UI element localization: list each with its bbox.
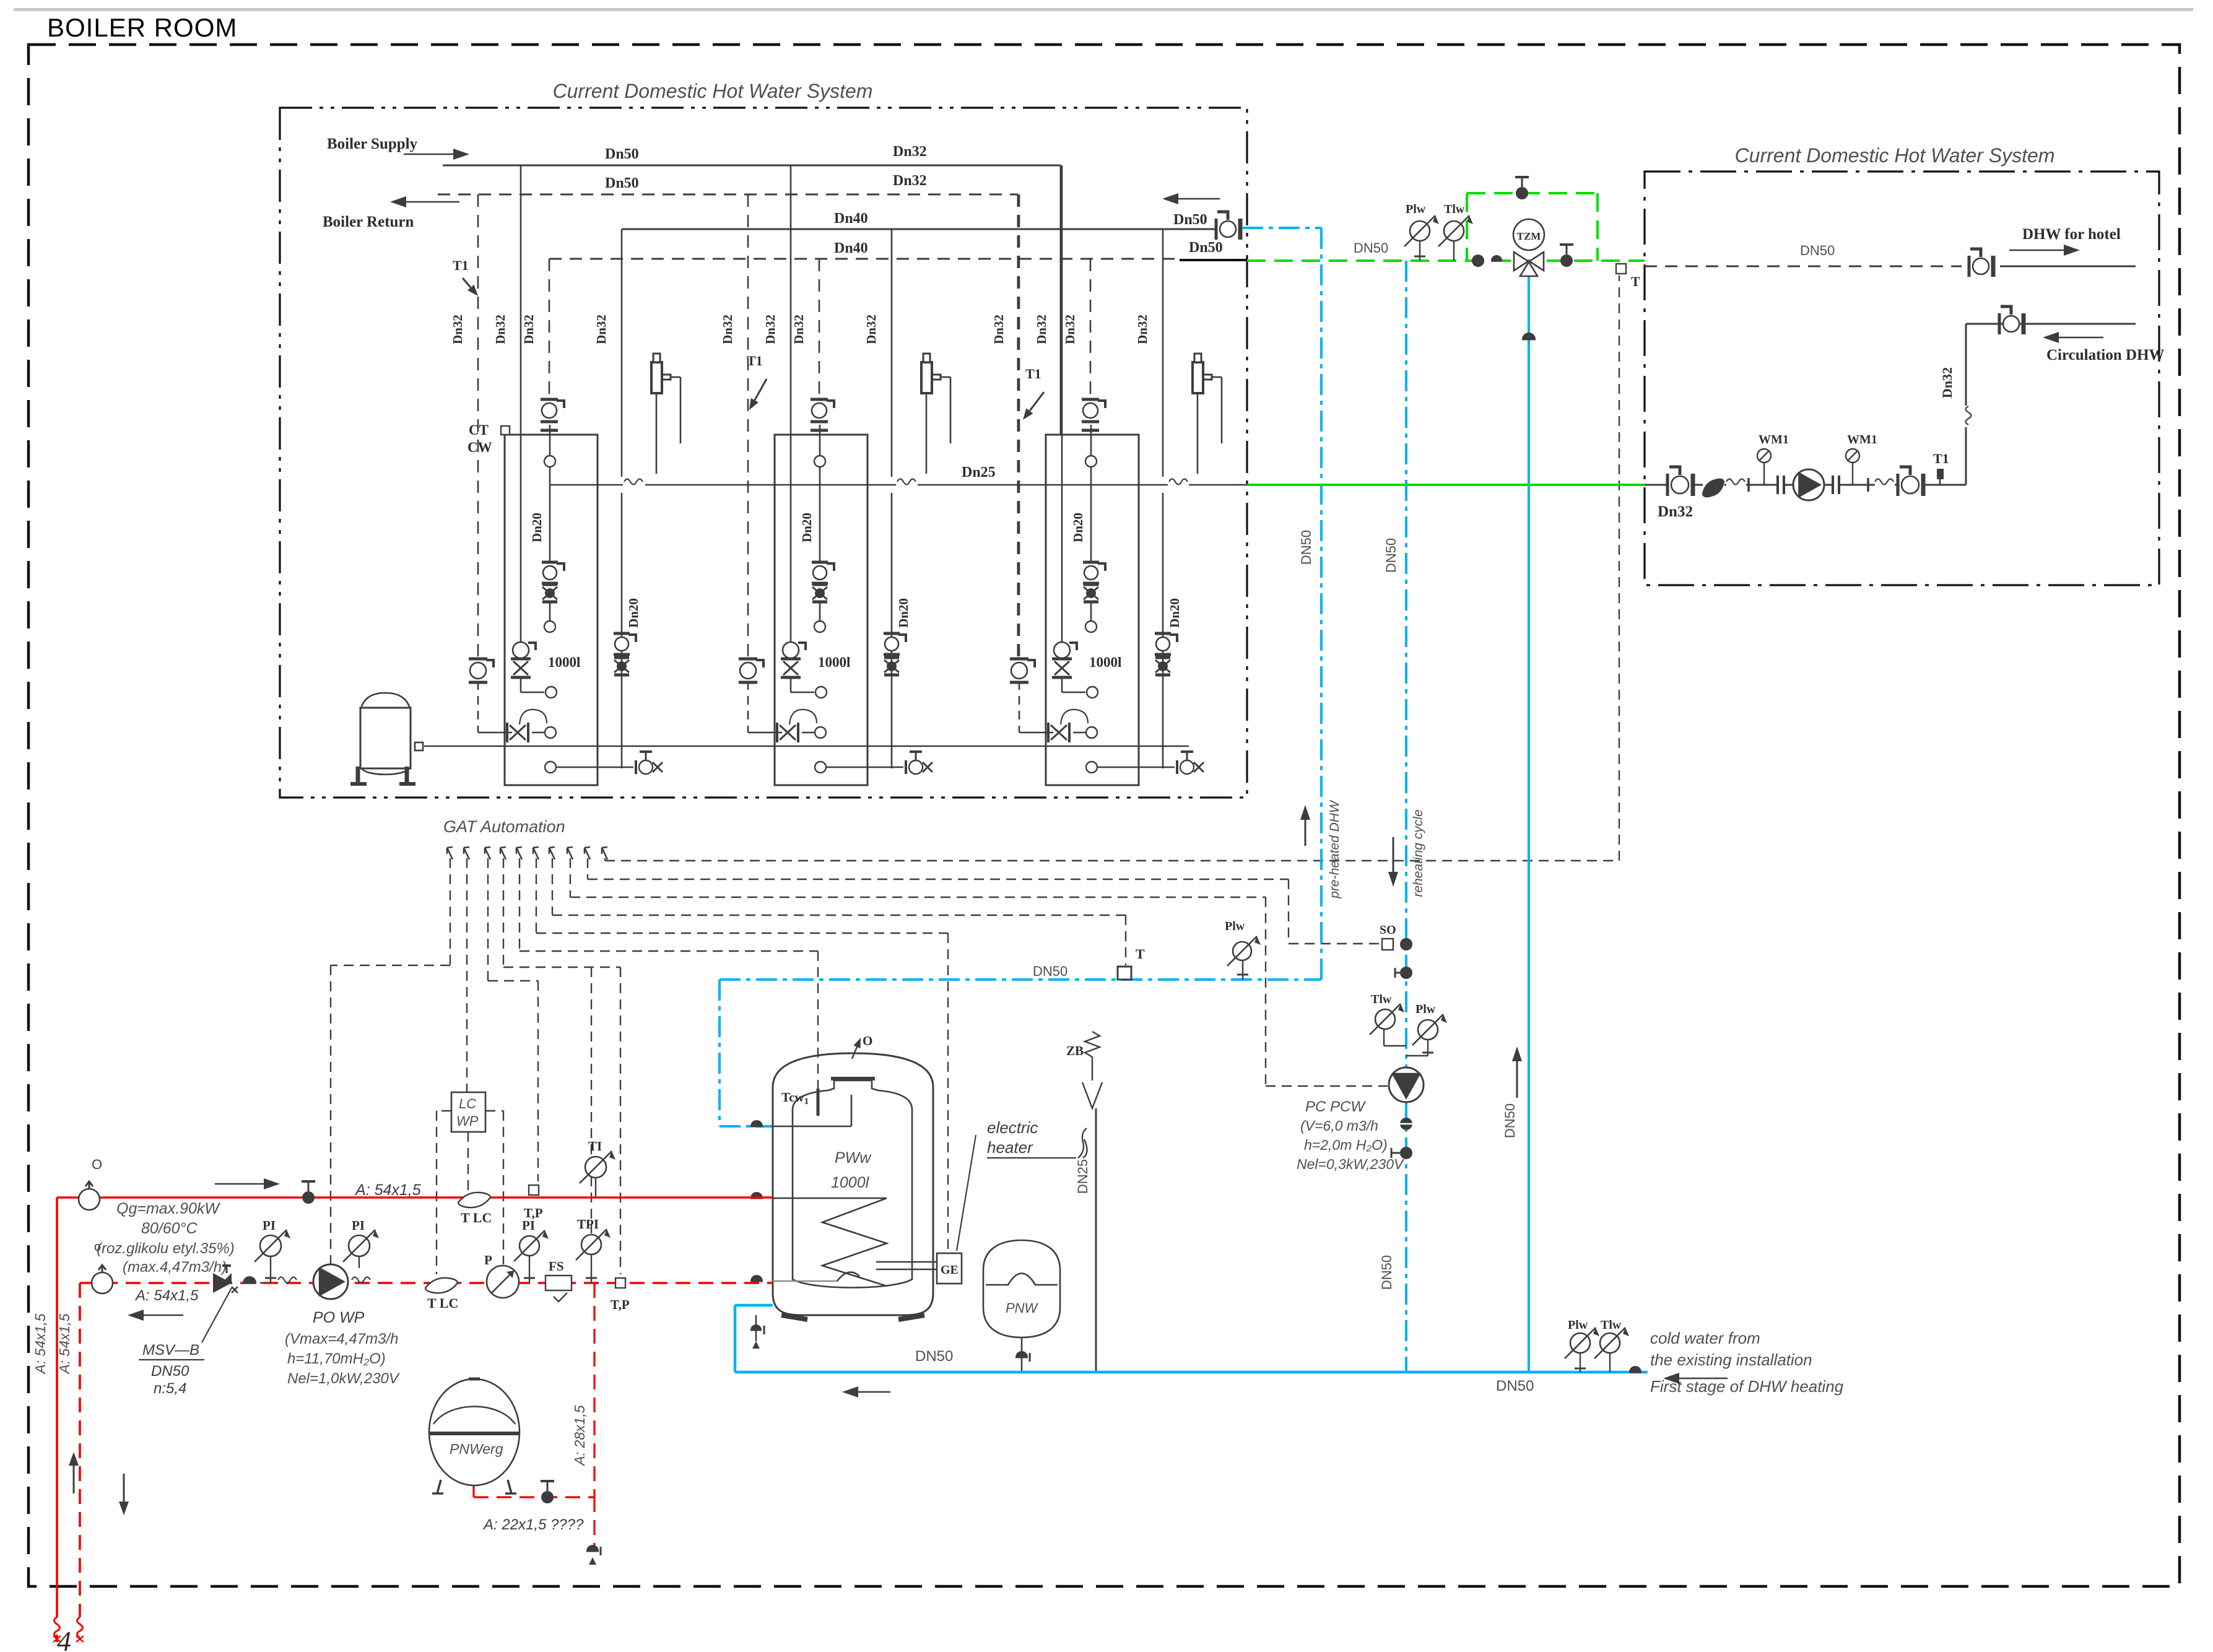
- svg-text:PNWerg: PNWerg: [450, 1441, 503, 1457]
- svg-text:electric: electric: [987, 1118, 1038, 1137]
- valve dots on green line: [1472, 254, 1484, 267]
- svg-text:(max.4,47m3/h): (max.4,47m3/h): [123, 1259, 227, 1276]
- svg-text:SO: SO: [1380, 923, 1396, 937]
- vent O: [852, 1047, 857, 1059]
- svg-text:MSV—B: MSV—B: [142, 1342, 199, 1359]
- air vent O supply: [79, 1189, 100, 1210]
- red return pipe (dashed): [80, 1282, 773, 1284]
- junction dot: [243, 1276, 256, 1283]
- gauge PI: [260, 1235, 281, 1256]
- svg-text:h=11,70mH₂O): h=11,70mH₂O): [287, 1350, 386, 1367]
- svg-text:PWw: PWw: [835, 1149, 872, 1167]
- svg-text:Circulation DHW: Circulation DHW: [2046, 347, 2165, 363]
- red pipe end ticks: [53, 1636, 61, 1642]
- svg-text:Nel=1,0kW,230V: Nel=1,0kW,230V: [287, 1370, 400, 1387]
- svg-text:Dn50: Dn50: [605, 175, 639, 191]
- svg-text:Dn50: Dn50: [605, 146, 639, 162]
- electric insert GE: [937, 1253, 962, 1284]
- circulation pipe: [1966, 323, 2136, 325]
- svg-text:T,P: T,P: [611, 1297, 630, 1312]
- gauge TPI: [581, 1235, 601, 1254]
- automation wire col8 to PC pump: [570, 858, 571, 897]
- svg-text:Dn40: Dn40: [834, 211, 868, 227]
- valve Dn50 top right: [1215, 219, 1218, 240]
- gauge Plw bottom: [1570, 1333, 1590, 1353]
- svg-text:DN50: DN50: [1379, 1255, 1394, 1290]
- svg-text:ZB: ZB: [1066, 1043, 1084, 1058]
- svg-text:Dn32: Dn32: [1939, 367, 1955, 398]
- svg-text:Dn25: Dn25: [962, 464, 996, 480]
- svg-text:80/60°C: 80/60°C: [141, 1220, 198, 1237]
- valve dot: [1400, 967, 1412, 979]
- controller LC WP: [451, 1092, 485, 1132]
- heater relief hook: [1078, 1128, 1087, 1158]
- junction dot: [1400, 938, 1412, 950]
- storage tank 2 (1000l) group: [720, 165, 950, 785]
- expansion vessel: [360, 693, 411, 711]
- svg-text:(V=6,0 m3/h: (V=6,0 m3/h: [1300, 1118, 1378, 1134]
- pipe Dn40 (dashed): [549, 258, 1180, 260]
- svg-text:Tcw1: Tcw1: [781, 1090, 809, 1106]
- pointer to electric heater: [957, 1135, 976, 1251]
- svg-text:DN50: DN50: [1502, 1103, 1518, 1138]
- gauge PI: [349, 1235, 370, 1256]
- svg-text:PNW: PNW: [1006, 1300, 1039, 1316]
- valve dot top port: [750, 1120, 763, 1126]
- pipe DN25: [1095, 1108, 1097, 1372]
- flex: [260, 1282, 265, 1284]
- circulation arrow: [2059, 337, 2103, 339]
- svg-text:CT: CT: [469, 422, 489, 438]
- valve dot red supply: [750, 1192, 763, 1198]
- svg-text:GE: GE: [941, 1263, 959, 1277]
- cold water arrow: [1679, 1378, 1728, 1380]
- svg-text:O: O: [92, 1157, 102, 1172]
- valve: [1897, 474, 1900, 496]
- svg-text:CW: CW: [467, 440, 492, 455]
- automation wire col10 to T sensor right: [604, 858, 606, 861]
- svg-text:T LC: T LC: [427, 1295, 458, 1311]
- boiler return arrow: [406, 201, 459, 203]
- pipe Dn50 return (dashed): [438, 194, 1018, 196]
- tank PWw inner: [793, 1080, 912, 1288]
- expansion vessel PNWrg: [429, 1379, 520, 1485]
- svg-text:reheating cycle: reheating cycle: [1411, 809, 1425, 897]
- svg-text:Dn32: Dn32: [893, 144, 927, 160]
- expansion vessel PNW: [983, 1240, 1060, 1337]
- valve dot: [1629, 1366, 1641, 1372]
- sensor T,P supply: [529, 1185, 539, 1195]
- svg-text:T: T: [1136, 946, 1145, 962]
- svg-text:the existing installation: the existing installation: [1650, 1350, 1812, 1369]
- automation wire col3 to T,P: [487, 858, 489, 981]
- MSV-B callout: [202, 1288, 232, 1342]
- air vent O return: [92, 1272, 113, 1293]
- valve TZM (3-way mixing): [1513, 219, 1544, 250]
- sensor T on DN50: [1118, 967, 1131, 980]
- svg-text:Plw: Plw: [1415, 1002, 1436, 1016]
- valve dot on riser: [1522, 333, 1536, 339]
- svg-text:WM1: WM1: [1847, 433, 1877, 446]
- pipe Dn50 supply (solid): [443, 165, 1061, 167]
- inlet pipe: [773, 1126, 851, 1128]
- heating coil: [773, 1198, 887, 1199]
- T LC symbol on return: [425, 1278, 458, 1293]
- automation wire col9 to SO: [587, 858, 588, 879]
- valve circulation: [1998, 313, 2001, 334]
- svg-text:Boiler Return: Boiler Return: [323, 214, 414, 230]
- svg-text:BOILER ROOM: BOILER ROOM: [47, 13, 237, 42]
- reheating cycle arrow: [1393, 837, 1394, 872]
- flow arrows: [73, 1466, 75, 1493]
- T LC symbol on supply: [458, 1193, 490, 1207]
- svg-text:Dn50: Dn50: [1173, 212, 1207, 228]
- svg-text:Current Domestic Hot Water: Current Domestic Hot Water System: [553, 80, 873, 102]
- svg-text:n:5,4: n:5,4: [154, 1380, 186, 1397]
- top window gray strip: [14, 8, 2193, 11]
- svg-text:T,P: T,P: [524, 1206, 543, 1220]
- sensor T square: [1616, 264, 1626, 274]
- gauge WM1: [1852, 463, 1853, 485]
- svg-text:cold water from: cold water from: [1650, 1329, 1760, 1347]
- cyan riser from TZM valve: [1528, 274, 1530, 1372]
- svg-text:A: 54x1,5: A: 54x1,5: [56, 1313, 72, 1375]
- svg-text:PO WP: PO WP: [313, 1309, 365, 1326]
- svg-text:DN50: DN50: [1354, 240, 1388, 256]
- valve dot: [302, 1191, 315, 1204]
- svg-text:h=2,0m H₂O): h=2,0m H₂O): [1304, 1137, 1388, 1153]
- flex connector: [1875, 479, 1893, 485]
- gauge Plw: [1410, 221, 1430, 241]
- svg-text:Boiler Supply: Boiler Supply: [327, 136, 418, 152]
- PNW stem valve: [1021, 1337, 1023, 1372]
- svg-text:Current Domestic Hot Water: Current Domestic Hot Water System: [1735, 144, 2055, 167]
- storage tank 3 (1000l) group: [991, 165, 1222, 785]
- svg-text:WP: WP: [456, 1113, 479, 1129]
- valve dot below pump: [1400, 1118, 1412, 1130]
- svg-text:DN50: DN50: [151, 1363, 189, 1380]
- svg-text:A: 28x1,5: A: 28x1,5: [572, 1405, 588, 1466]
- svg-text:T1: T1: [453, 258, 469, 273]
- svg-text:DN50: DN50: [1383, 538, 1399, 573]
- svg-text:Dn40: Dn40: [834, 240, 868, 256]
- gauge Tlw: [1444, 221, 1464, 241]
- svg-text:(Vmax=4,47m3/h: (Vmax=4,47m3/h: [285, 1331, 398, 1347]
- left box: Current Domestic Hot Water System: [280, 108, 1247, 798]
- svg-text:A: 22x1,5 ????: A: 22x1,5 ????: [482, 1516, 584, 1533]
- svg-text:A: 54x1,5: A: 54x1,5: [32, 1313, 48, 1375]
- svg-text:T: T: [1631, 274, 1640, 289]
- pump: [1776, 476, 1779, 494]
- gauge Plw on DN50: [1233, 942, 1251, 960]
- svg-text:pre-heated DHW: pre-heated DHW: [1328, 799, 1342, 899]
- flow switch FS: [546, 1276, 572, 1290]
- svg-text:DN50: DN50: [1496, 1378, 1534, 1394]
- svg-text:DHW for hotel: DHW for hotel: [2022, 226, 2121, 243]
- green bypass box: [1466, 193, 1468, 261]
- gauge PI: [520, 1236, 539, 1256]
- pump PO WP: [313, 1264, 348, 1299]
- automation wire col6 to GE: [536, 858, 537, 933]
- svg-text:Plw: Plw: [1406, 202, 1426, 216]
- green dashed pipe DN50: [1247, 259, 1645, 262]
- cyan riser reheating cycle: [1405, 261, 1407, 1372]
- cyan pipe: valve outlet to riser: [1242, 227, 1321, 229]
- supply arrow: [215, 1183, 264, 1185]
- red branch to PNWrg: [593, 1283, 595, 1497]
- svg-text:Dn32: Dn32: [893, 173, 927, 189]
- gauge Plw: [1418, 1020, 1438, 1040]
- drain under tank: [755, 1315, 757, 1341]
- svg-text:1000l: 1000l: [831, 1174, 870, 1191]
- svg-text:Tlw: Tlw: [1371, 993, 1392, 1006]
- svg-text:DN50: DN50: [1298, 530, 1314, 565]
- storage tank 1 (1000l) group: [450, 165, 680, 785]
- DN50 up arrow: [1516, 1061, 1518, 1098]
- pump PC PCW: [1389, 1067, 1424, 1102]
- pipe Dn32 riser: [1965, 324, 1967, 406]
- svg-text:TI: TI: [588, 1139, 602, 1154]
- cyan DN50 horizontal to tank: [720, 978, 1321, 981]
- svg-text:4: 4: [57, 1625, 71, 1652]
- gauge WM1: [1763, 463, 1765, 485]
- svg-text:PI: PI: [352, 1218, 365, 1233]
- automation fan arrows: [447, 847, 453, 859]
- pump line: [1645, 484, 1668, 486]
- svg-text:Plw: Plw: [1568, 1318, 1588, 1332]
- svg-text:T1: T1: [1025, 366, 1041, 381]
- sensor T1: [1937, 469, 1944, 479]
- DHW for hotel arrow: [2009, 250, 2064, 251]
- green solid pipe to right box: [1247, 484, 1645, 486]
- svg-text:(roz.glikolu etyl.35%): (roz.glikolu etyl.35%): [97, 1240, 235, 1257]
- automation wire col7 to T on DN50: [552, 858, 553, 915]
- pipe DN50 dashed to hotel: [1645, 266, 1962, 267]
- right box: Current Domestic Hot Water System: [1645, 172, 2159, 585]
- svg-text:PC PCW: PC PCW: [1305, 1098, 1366, 1115]
- svg-text:heater: heater: [987, 1138, 1033, 1157]
- pipe Dn25: [550, 484, 623, 486]
- svg-text:Tlw: Tlw: [1601, 1318, 1622, 1332]
- svg-text:TPI: TPI: [577, 1217, 599, 1232]
- svg-text:T LC: T LC: [461, 1210, 492, 1225]
- return arrow: [144, 1315, 183, 1316]
- svg-text:FS: FS: [549, 1259, 564, 1274]
- valve dot on bypass: [1516, 187, 1528, 199]
- red supply pipe: [57, 1196, 773, 1199]
- svg-text:DN50: DN50: [1800, 243, 1835, 258]
- pre-heated DHW arrow: [1305, 820, 1306, 846]
- svg-text:WM1: WM1: [1759, 433, 1789, 446]
- svg-text:A: 54x1,5: A: 54x1,5: [134, 1287, 199, 1304]
- svg-text:T1: T1: [747, 353, 763, 368]
- cyan pipe DN50 cold water: [735, 1371, 1648, 1374]
- svg-text:TZM: TZM: [1517, 230, 1541, 242]
- svg-text:Plw: Plw: [1225, 919, 1245, 933]
- pipe Dn40 (solid): [622, 228, 1215, 230]
- cold manifold pipe: [424, 746, 1189, 747]
- valve dot with H: [1400, 1147, 1412, 1159]
- tank PWw outer: [773, 1053, 933, 1315]
- svg-text:Dn32: Dn32: [1658, 503, 1693, 520]
- svg-text:o: o: [94, 1240, 101, 1254]
- automation wire col2 to LC WP: [466, 858, 467, 1092]
- svg-text:GAT Automation: GAT Automation: [443, 817, 565, 836]
- svg-text:LC: LC: [459, 1096, 476, 1111]
- automation wire col5 to Tcw1: [519, 858, 520, 951]
- coil to GE double line: [876, 1261, 937, 1263]
- filter: [1703, 479, 1724, 497]
- svg-text:O: O: [863, 1033, 872, 1048]
- gauge Tlw: [1375, 1009, 1395, 1029]
- sensor TI: [585, 1157, 606, 1178]
- svg-text:P: P: [484, 1253, 492, 1267]
- flex connector: [1726, 479, 1745, 485]
- valve MSV-B: [213, 1273, 232, 1293]
- valve: [1666, 474, 1669, 496]
- gauge Tlw bottom: [1600, 1333, 1620, 1353]
- svg-text:Tlw: Tlw: [1444, 202, 1465, 216]
- svg-text:DN50: DN50: [1033, 963, 1067, 979]
- automation wire col1: [450, 858, 451, 965]
- svg-text:A: 54x1,5: A: 54x1,5: [354, 1181, 421, 1199]
- cyan riser pre-heated DHW: [1320, 228, 1323, 980]
- boiler supply arrow: [404, 154, 453, 155]
- svg-text:DN25: DN25: [1075, 1159, 1090, 1194]
- top-right arrow: [1178, 198, 1220, 200]
- svg-text:Nel=0,3kW,230V: Nel=0,3kW,230V: [1297, 1156, 1405, 1172]
- valve dot red return: [750, 1275, 763, 1281]
- arrow left: [858, 1391, 890, 1393]
- pump P: [487, 1266, 519, 1298]
- svg-text:PI: PI: [263, 1218, 276, 1233]
- automation wire col4: [503, 858, 504, 967]
- svg-text:T1: T1: [1933, 451, 1949, 466]
- svg-text:DN50: DN50: [915, 1348, 953, 1365]
- svg-text:Dn50: Dn50: [1189, 240, 1223, 256]
- valve DHW hotel: [1968, 256, 1971, 277]
- sensor T,P return: [615, 1278, 625, 1288]
- svg-text:Qg=max.90kW: Qg=max.90kW: [116, 1200, 220, 1217]
- svg-text:First stage of DHW heating: First stage of DHW heating: [1650, 1377, 1844, 1396]
